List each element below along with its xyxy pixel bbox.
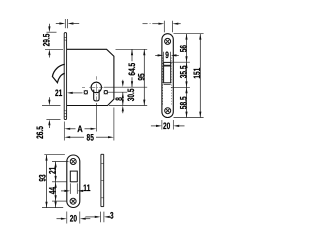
- faceplate hatch ticks top: [64, 36, 66, 38]
- svg-text:26.5: 26.5: [34, 126, 45, 139]
- dimension 64.5: [131, 49, 133, 61]
- svg-text:8: 8: [113, 97, 124, 101]
- faceplate side view: [64, 33, 66, 120]
- euro cylinder circle: [91, 82, 101, 92]
- dimension 35.5: [186, 62, 188, 87]
- svg-text:95: 95: [135, 73, 146, 80]
- strike plate outline: [67, 155, 80, 208]
- extension line screw hole right: [108, 91, 128, 93]
- svg-text:21: 21: [46, 167, 57, 174]
- svg-text:56: 56: [178, 45, 189, 52]
- dimension 151: [199, 34, 201, 118]
- dimension 44 strike: [55, 182, 57, 208]
- strike plate bottom screw hole: [70, 198, 76, 204]
- extension line plate bottom: [174, 117, 204, 119]
- dimension 20 strike plate width: [66, 212, 68, 224]
- svg-text:A: A: [77, 123, 83, 134]
- screw hole left: [84, 91, 87, 94]
- dimension 11 slot width: [69, 183, 71, 194]
- dimension 85: [113, 108, 115, 141]
- dimension 8: [122, 92, 124, 105]
- svg-text:11: 11: [83, 182, 90, 193]
- faceplate top screw hole: [165, 38, 171, 44]
- strike plate side view: [100, 154, 102, 206]
- cylinder horizontal centerline: [82, 86, 85, 88]
- dimension 26.5: [42, 105, 61, 107]
- svg-text:20: 20: [70, 213, 77, 224]
- svg-text:93: 93: [37, 174, 48, 181]
- svg-text:29.5: 29.5: [40, 34, 51, 47]
- extension lines strike plate left: [44, 154, 65, 156]
- faceplate front view outline: [162, 34, 173, 118]
- euro cylinder stem: [94, 90, 99, 101]
- slot lower edge line: [164, 84, 171, 86]
- svg-text:35.5: 35.5: [178, 66, 189, 79]
- svg-text:44: 44: [46, 186, 57, 194]
- extension line body top right: [116, 48, 148, 50]
- strike plate top screw hole: [70, 159, 76, 165]
- screw hole right: [104, 91, 107, 94]
- svg-text:21: 21: [55, 87, 62, 98]
- svg-text:151: 151: [191, 68, 202, 79]
- dimension 9 slot width: [163, 52, 165, 63]
- faceplate hook slot: [164, 62, 171, 82]
- dimension A backset: [63, 122, 65, 141]
- dimension 30.5: [122, 80, 124, 82]
- dimension 20 faceplate width: [161, 120, 163, 130]
- svg-text:3: 3: [110, 210, 114, 221]
- dimension 29.5: [47, 31, 57, 33]
- extension line body bottom right: [109, 105, 147, 107]
- svg-text:30.5: 30.5: [125, 89, 136, 102]
- faceplate thickness dimension: [56, 23, 61, 25]
- dimension 93: [46, 155, 48, 208]
- extension line plate top: [174, 33, 204, 35]
- hook bolt seen in slot: [164, 65, 171, 67]
- faceplate hatch ticks bottom: [64, 110, 66, 112]
- dimension 3 plate thickness: [100, 212, 102, 223]
- faceplate width dimension top: [143, 23, 148, 25]
- cylinder vertical centerline: [95, 76, 97, 80]
- extension line slot top: [171, 61, 190, 63]
- extension line slot bottom: [171, 86, 190, 88]
- dimension 56: [186, 34, 188, 63]
- lock case body outline: [67, 49, 114, 105]
- dimension 58.5: [186, 87, 188, 117]
- dimension 95 lock case: [143, 49, 145, 105]
- hidden edge dotted line right of slot: [170, 58, 172, 105]
- svg-text:85: 85: [87, 132, 94, 143]
- strike plate slot: [70, 171, 77, 182]
- faceplate bottom screw hole: [165, 108, 171, 114]
- extension line cylinder centre right: [104, 86, 147, 88]
- svg-text:58.5: 58.5: [178, 96, 189, 109]
- dimension 21 strike: [55, 162, 57, 182]
- hook bolt: [52, 64, 64, 82]
- svg-text:9: 9: [165, 49, 169, 60]
- hidden edge dotted line left of slot: [162, 58, 164, 105]
- side view bend ticks: [101, 162, 104, 164]
- svg-text:20: 20: [163, 120, 170, 131]
